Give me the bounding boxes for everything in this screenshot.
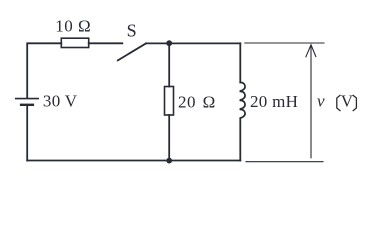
svg-text:20 mH: 20 mH xyxy=(250,92,298,111)
bracket right tortoise xyxy=(353,95,356,110)
svg-text:30 V: 30 V xyxy=(43,92,78,111)
wire: middle branch top xyxy=(168,43,170,86)
extension line top (voltage reference) xyxy=(245,42,324,44)
inductor L1 coil xyxy=(240,82,245,118)
svg-text:v: v xyxy=(317,91,325,110)
voltage arrowhead xyxy=(306,45,316,57)
wire: top-left horizontal + left vertical down to battery xyxy=(27,43,61,98)
wire: switch right side to top-right corner xyxy=(146,42,240,44)
svg-text:S: S xyxy=(127,21,137,41)
wire: bottom horizontal xyxy=(27,160,240,162)
wire: inductor branch bottom xyxy=(239,118,241,160)
svg-text:V: V xyxy=(341,91,354,110)
junction dot top node xyxy=(166,40,172,46)
battery E 30V short plate xyxy=(21,104,33,106)
resistor R1 10 ohm body xyxy=(61,38,88,47)
bracket left tortoise xyxy=(337,95,340,110)
svg-text:10 Ω: 10 Ω xyxy=(55,17,91,36)
wire: resistor R1 to switch left contact xyxy=(89,42,123,44)
wire: inductor branch top xyxy=(239,43,241,82)
junction dot bottom node xyxy=(166,158,172,164)
battery E 30V long plate xyxy=(16,98,39,100)
wire: middle branch bottom xyxy=(168,115,170,161)
voltage arrow v shaft xyxy=(310,45,312,157)
resistor R2 20 ohm body xyxy=(165,87,174,116)
extension line bottom (voltage reference) xyxy=(246,161,323,163)
svg-text:20 Ω: 20 Ω xyxy=(178,93,216,112)
wire: battery to bottom-left corner xyxy=(26,105,28,161)
switch S blade xyxy=(118,43,146,60)
